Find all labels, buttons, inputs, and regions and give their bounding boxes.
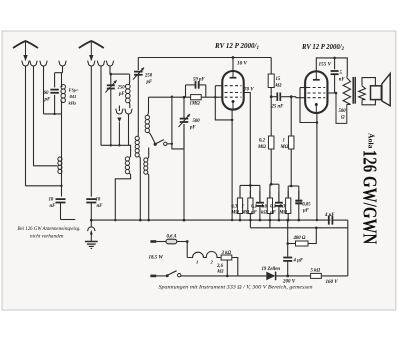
node bracket t2 (316, 121, 319, 124)
op-amp U2 tube RV12P2000/2 (305, 71, 327, 113)
coil E (148, 148, 149, 159)
antenna 1 socket (22, 61, 29, 66)
wire cap60 rail bot (54, 95, 56, 114)
wire rail172 (171, 97, 173, 144)
svg-text:0,1: 0,1 (270, 205, 276, 210)
capacitor 60pF (50, 89, 59, 91)
wire heater drop (186, 242, 188, 258)
wire bracket t1 (215, 85, 224, 87)
node t2 plate (335, 92, 338, 95)
svg-text:nicht vorhanden: nicht vorhanden (30, 234, 64, 240)
svg-text:MΩ: MΩ (241, 211, 250, 216)
wire t1 top (232, 58, 234, 72)
wire cap60 rail top (54, 73, 56, 88)
svg-text:70 V: 70 V (244, 87, 254, 92)
wire 3k out (232, 258, 238, 276)
wire 3k tap (226, 260, 228, 276)
wire mains d (321, 275, 348, 277)
wire rail250 down (249, 97, 251, 186)
svg-text:19 Zellen: 19 Zellen (262, 267, 281, 272)
wire fuse lead (156, 241, 166, 243)
wire 5nF rail bot (334, 74, 336, 93)
node 3k tap (226, 275, 229, 278)
svg-text:nF: nF (339, 78, 346, 83)
svg-text:1: 1 (196, 260, 198, 265)
wire sockA3 down (43, 66, 45, 114)
wire sock2 down (128, 114, 130, 145)
wire coilC stub (129, 145, 131, 157)
svg-text:0,3: 0,3 (279, 205, 286, 210)
svg-text:160 V: 160 V (326, 280, 339, 285)
wire line B stubs (249, 220, 251, 228)
wire sockA4 down (62, 66, 64, 73)
svg-text:250: 250 (144, 74, 153, 79)
socket coil left (116, 109, 123, 114)
wire rail138 bot (137, 75, 139, 134)
resistor bank (239, 191, 241, 198)
socket coil right (125, 109, 132, 114)
svg-text:kΩ: kΩ (218, 270, 224, 275)
resistor 1M b (290, 97, 292, 136)
node t2 grid junction (290, 95, 293, 98)
wire rail287 mid (287, 244, 289, 257)
wire coilF stub top (61, 73, 63, 85)
svg-text:RV 12 P 2000/1: RV 12 P 2000/1 (214, 42, 259, 51)
transformer T1 secondary (359, 86, 366, 100)
wire lc top (55, 72, 63, 74)
coil A (145, 115, 149, 119)
wire line B (250, 227, 347, 229)
wire lc bottom (44, 113, 62, 115)
wire trim250a top (110, 74, 112, 85)
svg-text:MΩ: MΩ (257, 145, 266, 150)
wire rail61 down (61, 114, 63, 197)
wire cap10a down (60, 203, 62, 220)
node y145a (110, 144, 112, 146)
wire sockB2 down (100, 66, 102, 145)
ground socket (87, 227, 95, 231)
svg-text:10 V: 10 V (237, 61, 247, 67)
svg-text:pF: pF (118, 92, 125, 97)
svg-text:500: 500 (193, 119, 201, 124)
wire 400 loop (288, 243, 296, 245)
node bus coils (139, 219, 142, 222)
wire rail287 top (287, 220, 289, 243)
heater element (187, 251, 221, 257)
node plate junction (270, 95, 273, 98)
svg-text:25 nF: 25 nF (271, 105, 285, 110)
svg-text:250: 250 (117, 86, 126, 91)
node t2 cath bus (316, 219, 318, 221)
terminal fuse (150, 240, 156, 243)
capacitor 59pF (195, 81, 197, 89)
wire switch out (167, 124, 184, 149)
svg-text:MΩ: MΩ (280, 145, 289, 150)
node 287 bus (286, 219, 289, 222)
trimmer 250pF a (107, 84, 115, 86)
ground (90, 235, 92, 242)
svg-text:4 µF: 4 µF (324, 213, 335, 218)
wire mains c (276, 275, 311, 277)
wire rail271 top (270, 58, 272, 75)
node 400 tap (286, 242, 289, 245)
wire ant2 down (90, 66, 92, 197)
resistor 5k (311, 273, 322, 278)
transformer core (352, 77, 354, 104)
fuse 0,6A (166, 239, 177, 244)
svg-text:60: 60 (44, 91, 50, 96)
wire sockA2 down (33, 66, 35, 166)
svg-text:5 kΩ: 5 kΩ (311, 268, 321, 273)
node rail184 bus (183, 219, 186, 222)
svg-text:kΩ: kΩ (261, 211, 267, 216)
capacitor 4uF series (328, 216, 330, 225)
bank rail 4-5 (270, 183, 279, 185)
coil B (137, 134, 140, 137)
svg-text:15: 15 (276, 77, 281, 82)
svg-text:0,1: 0,1 (251, 205, 257, 210)
wire main bus (91, 219, 330, 221)
antenna 1 (13, 41, 38, 48)
node 200V (286, 275, 289, 278)
wire t2 top bus (316, 58, 348, 72)
socket A3 (40, 61, 47, 66)
wire rail271 mid (270, 88, 272, 137)
capacitor 25nF (271, 96, 276, 98)
wire right rail (347, 220, 349, 276)
wire rail291 low (290, 149, 292, 186)
coil A0 (128, 74, 131, 84)
transformer T1 primary (346, 58, 349, 78)
coil L2 (58, 157, 62, 161)
wire sock1 down (118, 122, 120, 145)
svg-text:kΩ: kΩ (276, 84, 282, 89)
node heater (186, 240, 189, 243)
wire t2 grid (291, 96, 296, 98)
svg-text:155 V: 155 V (319, 61, 332, 67)
wire top bus (138, 57, 271, 59)
coil C (125, 157, 129, 161)
svg-text:FSp=: FSp= (69, 88, 79, 93)
wire coilC bot (115, 173, 130, 221)
wire coilA stub (147, 97, 148, 115)
svg-text:4 µF: 4 µF (293, 259, 304, 264)
svg-text:RV 12 P 2000/2: RV 12 P 2000/2 (301, 43, 344, 52)
svg-text:0,2: 0,2 (259, 139, 266, 144)
resistor 1M grid (191, 95, 202, 100)
svg-text:kHz: kHz (69, 101, 77, 106)
wire rail287 bot (287, 262, 289, 276)
svg-text:126 GW/GWN: 126 GW/GWN (359, 150, 381, 245)
svg-text:841: 841 (70, 94, 77, 99)
svg-text:Äola: Äola (367, 133, 375, 149)
svg-text:18,5 W: 18,5 W (149, 256, 164, 261)
wire coilA to switch (148, 132, 155, 143)
wire t2 plate (328, 92, 337, 94)
wire rail138 top (137, 58, 139, 71)
svg-text:0,3: 0,3 (231, 205, 238, 210)
speaker LS1 (362, 78, 375, 86)
wire grid line b (201, 96, 222, 98)
svg-text:0,6 A: 0,6 A (167, 234, 177, 239)
antenna 2 (79, 41, 104, 48)
wire t2 cathode down (316, 113, 318, 220)
page border (2, 31, 396, 310)
terminal mains (150, 275, 156, 278)
diode 19 Zellen (266, 272, 275, 281)
socket A2 (30, 61, 37, 66)
node y145b (118, 144, 120, 146)
bank rail 1-3 (240, 184, 260, 186)
op-amp U1 tube RV12P2000/1 (222, 71, 243, 110)
antenna 2 socket (88, 61, 95, 66)
svg-text:3 kΩ: 3 kΩ (221, 251, 232, 256)
wire loop top (186, 84, 196, 86)
svg-text:pF: pF (189, 126, 196, 131)
capacitor C 10nF left (56, 198, 66, 200)
wire cap10b down (90, 203, 92, 221)
svg-text:µF: µF (269, 211, 277, 216)
wire y186 (26, 185, 62, 187)
wire coilF stub bot (61, 103, 63, 114)
wire trim250a down (110, 89, 112, 146)
node bus start (90, 219, 93, 222)
wire rail184 stub (183, 97, 185, 118)
svg-text:400 Ω: 400 Ω (293, 236, 306, 241)
node rail172 top (171, 96, 173, 98)
svg-text:nF: nF (50, 204, 57, 209)
svg-text:10: 10 (49, 198, 54, 203)
svg-text:1,6: 1,6 (261, 205, 268, 210)
svg-text:MΩ: MΩ (230, 211, 239, 216)
svg-text:59 pF: 59 pF (193, 78, 205, 83)
svg-text:MΩ: MΩ (278, 211, 287, 216)
wire t1 cathode down (231, 110, 233, 221)
bank rail 6-7 (288, 185, 299, 187)
trimmer 250pF b (134, 71, 143, 73)
wire rail184 down (183, 124, 185, 221)
svg-text:500: 500 (339, 109, 347, 114)
wire tapline (34, 165, 58, 167)
svg-text:10: 10 (96, 198, 101, 203)
wire stub deadend (61, 219, 76, 221)
switch S1 (154, 143, 157, 146)
node y186 (60, 185, 62, 187)
wire ant1 down (25, 66, 27, 186)
svg-text:pF: pF (44, 98, 52, 103)
svg-text:Bei 126 GW Antenneneinspeisg.: Bei 126 GW Antenneneinspeisg. (18, 226, 81, 232)
coil Fsp (61, 85, 65, 90)
svg-text:1: 1 (242, 205, 244, 210)
switch mains (166, 274, 169, 277)
wire fuse out (177, 241, 187, 243)
svg-text:0,05: 0,05 (302, 203, 311, 208)
node bracket t1 (231, 119, 234, 122)
socket B3 (106, 61, 113, 66)
wire mains a (156, 275, 167, 277)
wire mains b (181, 275, 266, 277)
svg-text:1MΩ: 1MΩ (190, 102, 201, 107)
wire sockB3 down (109, 66, 111, 74)
wire loop left (185, 85, 187, 97)
trimmer 500pF (180, 118, 189, 120)
node 5nF top (333, 57, 336, 60)
resistor 3k (221, 255, 232, 260)
svg-text:µF: µF (250, 211, 258, 216)
svg-text:Ω: Ω (341, 116, 345, 121)
resistor 0,3M a (270, 135, 272, 137)
svg-text:pF: pF (146, 80, 153, 85)
capacitor C 10nF right (86, 198, 96, 200)
node t1 top (232, 56, 235, 59)
wire 5nF rail top (334, 58, 336, 69)
resistor 15k (268, 74, 274, 88)
wire bracket t2 (300, 87, 307, 89)
svg-text:1: 1 (283, 139, 285, 144)
svg-text:2,6: 2,6 (216, 264, 224, 269)
wire t1 screen (244, 93, 251, 97)
wire rail271 low (270, 149, 272, 184)
node t1 cath bus (231, 219, 233, 221)
wire loop right (205, 85, 207, 97)
node lc bottom (53, 113, 55, 115)
svg-text:Spannungen mit Instrument 333: Spannungen mit Instrument 333 Ω / V, 300… (159, 285, 313, 291)
capacitor 4uF shunt (283, 257, 292, 259)
svg-text:µF: µF (302, 209, 310, 214)
wire b3 horiz (110, 73, 130, 75)
socket B2 (97, 61, 104, 66)
wire grid line (149, 96, 191, 98)
wire y145 (101, 144, 129, 146)
svg-text:nF: nF (97, 204, 104, 209)
socket A4 (59, 61, 66, 66)
capacitor 5nF (331, 70, 339, 72)
